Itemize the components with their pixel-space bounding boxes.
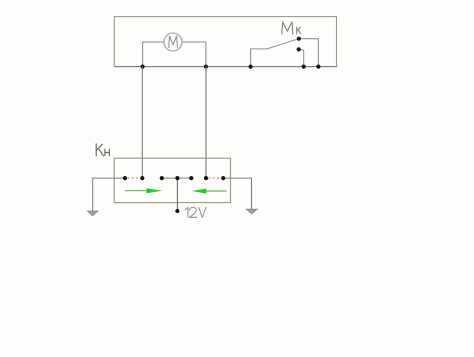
junction box (top rectangle)	[114, 17, 336, 67]
relay box Kn	[114, 158, 230, 202]
wire (left long vertical to relay)	[141, 67, 143, 179]
wire (right long vertical to relay)	[205, 67, 207, 179]
wire (motor right branch)	[182, 42, 206, 67]
current arrow right (green, pointing left)	[206, 190, 227, 192]
ground (left)	[87, 211, 98, 216]
wire (right exit to ground)	[223, 178, 251, 209]
wire (motor left branch)	[143, 42, 164, 67]
switch SA right leg wire	[299, 39, 319, 67]
wire (12V feed stub)	[176, 178, 178, 211]
current arrow left (green, pointing right)	[125, 190, 148, 192]
switch SA (Mk) left leg wire	[251, 49, 267, 67]
node: switch left bottom	[249, 65, 253, 69]
node: switch top contact	[297, 37, 301, 41]
node: relay contact 5	[189, 176, 193, 180]
label 12 V	[185, 207, 206, 217]
node: relay contact 6	[204, 176, 208, 180]
node: relay contact 2	[140, 176, 144, 180]
node: 12V feed junction	[175, 176, 179, 180]
node: 12V terminal	[175, 209, 179, 213]
node: motor right junction	[204, 65, 208, 69]
node: relay contact 1	[123, 176, 127, 180]
node: relay contact 3	[160, 176, 164, 180]
node: switch middle contact	[297, 47, 301, 51]
node: relay contact 7	[221, 176, 225, 180]
ground (right)	[246, 209, 257, 214]
node: motor left junction	[141, 65, 145, 69]
contact gap right (open, red dashed)	[208, 177, 221, 179]
motor M1 (circle)	[164, 33, 182, 51]
wire (middle common segment)	[162, 177, 192, 179]
node: switch middle bottom	[302, 65, 306, 69]
label Kn (relay)	[96, 144, 109, 156]
node: switch right bottom	[316, 65, 320, 69]
motor M1 letter M	[169, 36, 178, 48]
wire (bottom bus of top box)	[114, 66, 336, 68]
label Mk (switch)	[282, 22, 301, 34]
switch SA blade	[267, 39, 299, 49]
switch SA middle contact wire	[299, 49, 304, 66]
contact gap left (open, red dashed)	[127, 177, 140, 179]
wire (left exit to ground)	[93, 178, 125, 211]
